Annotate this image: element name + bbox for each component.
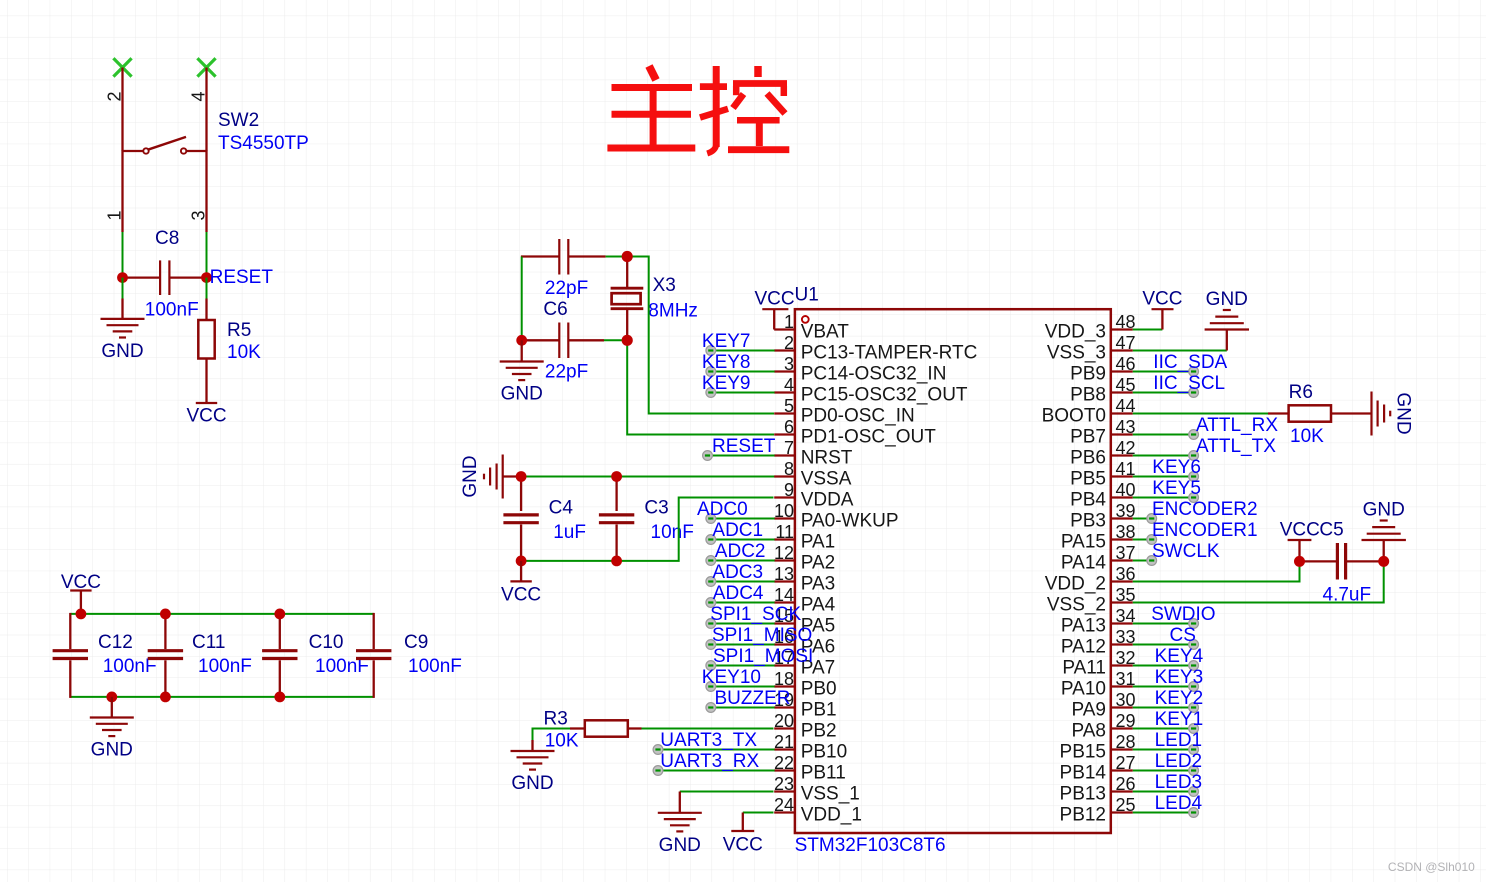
capacitor C10 100nF — [262, 614, 297, 697]
svg-text:10K: 10K — [227, 342, 261, 363]
svg-text:GND: GND — [659, 835, 701, 856]
capacitor C8 100nF — [126, 260, 203, 295]
svg-text:KEY9: KEY9 — [702, 373, 751, 394]
U1 pin 37 PA14 stub and number — [1061, 543, 1136, 574]
svg-text:PC13-TAMPER-RTC: PC13-TAMPER-RTC — [801, 343, 978, 364]
svg-text:BOOT0: BOOT0 — [1042, 406, 1106, 427]
resistor R3 10K — [570, 720, 628, 736]
junction C3 top — [611, 471, 622, 482]
svg-text:1: 1 — [784, 312, 794, 332]
svg-text:35: 35 — [1116, 585, 1136, 605]
wire/net LED1 at U1 pin 28 — [1133, 730, 1202, 754]
junction C10 bottom — [274, 692, 285, 703]
svg-text:28: 28 — [1116, 732, 1136, 752]
U1 pin 25 PB12 stub and number — [1060, 795, 1136, 826]
U1 pin 21 PB10 stub and number — [774, 732, 847, 763]
U1 pin 41 PB5 stub and number — [1070, 459, 1135, 490]
junction at C8 left / GND — [117, 272, 128, 283]
svg-text:PC14-OSC32_IN: PC14-OSC32_IN — [801, 364, 947, 385]
U1 pin 1 VBAT stub and number — [774, 312, 849, 343]
capacitor C5 4.7uF — [1300, 543, 1384, 580]
wire/net RESET at U1 pin 7 — [703, 436, 776, 460]
svg-text:GND: GND — [501, 384, 543, 405]
wire/net ATTL_TX at U1 pin 42 — [1133, 436, 1276, 460]
wire RESET node down to R5 (green) — [206, 278, 208, 299]
U1 pin 5 PD0-OSC_IN stub and number — [774, 396, 915, 427]
wire bottom rail (green) — [70, 696, 373, 698]
wire U1 pin35 VSS_2 to C5 (green) — [1133, 561, 1384, 602]
svg-text:20: 20 — [774, 711, 794, 731]
svg-text:PB2: PB2 — [801, 721, 837, 742]
svg-text:PB15: PB15 — [1060, 742, 1106, 763]
op-amp/IC body U1 STM32F103C8T6 — [795, 309, 1111, 833]
wire/net SPI1_MISO at U1 pin 16 — [706, 625, 812, 649]
svg-text:PB1: PB1 — [801, 700, 837, 721]
wire U1 pin44 BOOT0 to R6 (green) — [1133, 413, 1268, 415]
svg-text:18: 18 — [774, 669, 794, 689]
wire/net UART3_TX at U1 pin 21 — [653, 730, 775, 754]
svg-text:C3: C3 — [644, 497, 668, 518]
wire/net SWCLK at U1 pin 37 — [1133, 541, 1220, 565]
svg-text:22pF: 22pF — [545, 361, 588, 382]
power VCC at U1 pin48 — [1142, 289, 1182, 330]
svg-text:KEY5: KEY5 — [1152, 478, 1201, 499]
svg-text:IIC_SCL: IIC_SCL — [1153, 373, 1225, 394]
svg-text:R6: R6 — [1289, 382, 1313, 403]
U1 pin 1 origin circle — [802, 316, 809, 323]
svg-text:34: 34 — [1116, 606, 1136, 626]
svg-text:39: 39 — [1116, 501, 1136, 521]
svg-text:PA13: PA13 — [1061, 616, 1106, 637]
svg-text:UART3_TX: UART3_TX — [660, 730, 757, 751]
U1 pin 9 VDDA stub and number — [774, 480, 854, 511]
svg-text:C4: C4 — [549, 497, 574, 518]
resistor R6 10K — [1289, 405, 1372, 421]
U1 pin 28 PB15 stub and number — [1060, 732, 1136, 763]
svg-text:C8: C8 — [155, 228, 179, 249]
svg-text:10K: 10K — [1290, 426, 1324, 447]
svg-text:9: 9 — [784, 480, 794, 500]
wire top rail (green) — [70, 613, 373, 615]
svg-text:25: 25 — [1116, 795, 1136, 815]
svg-text:VDDA: VDDA — [801, 490, 854, 511]
svg-text:45: 45 — [1116, 375, 1136, 395]
svg-text:SW2: SW2 — [218, 110, 259, 131]
U1 pin 43 PB7 stub and number — [1070, 417, 1135, 448]
svg-text:10: 10 — [774, 501, 794, 521]
svg-text:26: 26 — [1116, 774, 1136, 794]
wire VSSA rail pin8 (green) — [521, 476, 775, 478]
no-ERC marker X on SW2 pin 4 — [197, 58, 215, 76]
svg-text:KEY4: KEY4 — [1155, 646, 1204, 667]
svg-text:RESET: RESET — [210, 267, 274, 288]
wire bottom of C4/C3 to U1 pin9 (green) — [521, 498, 773, 561]
wire/net ATTL_RX at U1 pin 43 — [1133, 415, 1279, 439]
svg-text:PA1: PA1 — [801, 532, 836, 553]
wire/net KEY1 at U1 pin 29 — [1133, 709, 1203, 733]
junction C11 bottom — [160, 692, 171, 703]
no-ERC marker X on SW2 pin 2 — [113, 58, 131, 76]
svg-text:RESET: RESET — [712, 436, 776, 457]
svg-text:23: 23 — [774, 774, 794, 794]
junction at C8 right / RESET — [201, 272, 212, 283]
svg-text:PB0: PB0 — [801, 679, 837, 700]
svg-text:3: 3 — [784, 354, 794, 374]
svg-text:43: 43 — [1116, 417, 1136, 437]
svg-text:PB5: PB5 — [1070, 469, 1106, 490]
svg-text:SPI1_MISO: SPI1_MISO — [712, 625, 812, 646]
svg-text:PA2: PA2 — [801, 553, 836, 574]
svg-text:ADC3: ADC3 — [712, 562, 763, 583]
svg-text:7: 7 — [784, 438, 794, 458]
ground GND below R3 — [511, 740, 555, 794]
U1 pin 27 PB14 stub and number — [1060, 753, 1136, 784]
ground GND at U1 pin23 — [658, 792, 702, 856]
svg-text:4: 4 — [189, 91, 209, 101]
ground GND right of R6 — [1370, 392, 1372, 436]
svg-text:KEY3: KEY3 — [1155, 667, 1204, 688]
wire/net LED2 at U1 pin 27 — [1133, 751, 1202, 775]
svg-text:ADC2: ADC2 — [715, 541, 766, 562]
wire/net ENCODER1 at U1 pin 38 — [1133, 520, 1258, 544]
svg-text:VCC: VCC — [186, 406, 226, 427]
wire/net KEY10 at U1 pin 18 — [702, 667, 775, 691]
U1 pin 15 PA5 stub and number — [774, 606, 835, 637]
svg-text:C9: C9 — [404, 632, 428, 653]
wire/net LED4 at U1 pin 25 — [1133, 793, 1203, 817]
wire SW2 pin3 to node RESET (green) — [206, 232, 208, 278]
svg-text:PB12: PB12 — [1060, 805, 1106, 826]
svg-text:VSS_3: VSS_3 — [1047, 343, 1106, 364]
wire U1 pin47 VSS_3 to GND (green) — [1133, 350, 1227, 352]
wire/net ADC3 at U1 pin 13 — [706, 562, 775, 586]
svg-text:8MHz: 8MHz — [648, 300, 698, 321]
svg-text:LED3: LED3 — [1155, 772, 1203, 793]
wire/net ADC1 at U1 pin 11 — [706, 520, 775, 544]
svg-text:VSSA: VSSA — [801, 469, 852, 490]
U1 pin 32 PA11 stub and number — [1062, 648, 1135, 679]
svg-text:GND: GND — [511, 773, 553, 794]
ground GND left of VSSA rail — [502, 455, 504, 499]
svg-text:GND: GND — [1363, 500, 1405, 521]
wire/net KEY7 at U1 pin 2 — [702, 331, 775, 355]
svg-text:3: 3 — [189, 210, 209, 220]
wire crystal bottom to U1 pin6 (green) — [627, 340, 774, 434]
svg-text:32: 32 — [1116, 648, 1136, 668]
junction C5 right — [1378, 556, 1389, 567]
wire/net UART3_RX at U1 pin 22 — [653, 751, 775, 775]
svg-text:ENCODER2: ENCODER2 — [1152, 499, 1258, 520]
svg-text:KEY6: KEY6 — [1152, 457, 1201, 478]
U1 pin 24 VDD_1 stub and number — [774, 795, 862, 826]
ground GND at C5 right (inverted) — [1362, 500, 1406, 562]
svg-text:22pF: 22pF — [545, 278, 588, 299]
wire/net KEY4 at U1 pin 32 — [1133, 646, 1204, 670]
junction crystal top — [622, 251, 633, 262]
U1 pin 36 VDD_2 stub and number — [1045, 564, 1136, 595]
svg-text:VBAT: VBAT — [801, 322, 850, 343]
wire U1 pin48 VDD_3 to VCC (green) — [1133, 329, 1163, 331]
U1 pin 4 PC15-OSC32_OUT stub and number — [774, 375, 968, 406]
svg-text:36: 36 — [1116, 564, 1136, 584]
power VCC below R5 — [186, 403, 226, 427]
svg-text:12: 12 — [774, 543, 794, 563]
svg-text:100nF: 100nF — [145, 300, 199, 321]
power VCC for decoupling bank — [61, 572, 101, 614]
svg-text:ATTL_TX: ATTL_TX — [1196, 436, 1276, 457]
capacitor C4 1uF — [503, 477, 538, 561]
svg-text:VSS_1: VSS_1 — [801, 784, 860, 805]
power VCC at C5 left — [1280, 520, 1320, 562]
svg-text:U1: U1 — [795, 285, 819, 306]
U1 pin 23 VSS_1 stub and number — [774, 774, 860, 805]
junction C10 top — [274, 609, 285, 620]
capacitor 22pF (bottom of C6 pair) — [524, 323, 604, 359]
svg-text:37: 37 — [1116, 543, 1136, 563]
U1 pin 35 VSS_2 stub and number — [1047, 585, 1136, 616]
svg-text:R3: R3 — [544, 709, 568, 730]
svg-text:PA12: PA12 — [1061, 637, 1106, 658]
svg-text:100nF: 100nF — [198, 656, 252, 677]
junction C11 top — [160, 609, 171, 620]
wire/net CS at U1 pin 33 — [1133, 625, 1199, 649]
wire/net LED3 at U1 pin 26 — [1133, 772, 1202, 796]
svg-text:VSS_2: VSS_2 — [1047, 595, 1106, 616]
svg-text:PB7: PB7 — [1070, 427, 1106, 448]
svg-text:PB14: PB14 — [1060, 763, 1107, 784]
wire/net ADC0 at U1 pin 10 — [697, 499, 775, 523]
wire U1 pin23 VSS_1 to GND (green) — [680, 791, 774, 793]
junction GND/bottom rail — [106, 692, 117, 703]
svg-text:LED4: LED4 — [1155, 793, 1203, 814]
svg-text:46: 46 — [1116, 354, 1136, 374]
svg-text:KEY2: KEY2 — [1155, 688, 1204, 709]
svg-text:KEY7: KEY7 — [702, 331, 751, 352]
svg-text:PB9: PB9 — [1070, 364, 1106, 385]
title text 主控 (red) — [607, 66, 789, 154]
U1 pin 42 PB6 stub and number — [1070, 438, 1135, 469]
svg-text:VDD_2: VDD_2 — [1045, 574, 1106, 595]
wire left vertical of crystal loop (green) — [521, 257, 523, 341]
svg-text:PA0-WKUP: PA0-WKUP — [801, 511, 899, 532]
svg-text:VDD_3: VDD_3 — [1045, 322, 1106, 343]
U1 pin 26 PB13 stub and number — [1060, 774, 1136, 805]
svg-text:14: 14 — [774, 585, 794, 605]
svg-text:SPI1_MOSI: SPI1_MOSI — [713, 646, 813, 667]
svg-text:TS4550TP: TS4550TP — [218, 133, 309, 154]
svg-text:1uF: 1uF — [553, 522, 586, 543]
svg-text:13: 13 — [774, 564, 794, 584]
svg-text:PA14: PA14 — [1061, 553, 1107, 574]
svg-text:GND: GND — [101, 341, 143, 362]
capacitor C12 100nF — [53, 613, 88, 698]
U1 pin 34 PA13 stub and number — [1061, 606, 1136, 637]
svg-text:10K: 10K — [545, 730, 579, 751]
U1 pin 44 BOOT0 stub and number — [1042, 396, 1136, 427]
wire/net ADC4 at U1 pin 14 — [706, 583, 775, 607]
ground GND below C8 left — [101, 278, 145, 362]
power VCC at U1 pin1 — [755, 289, 795, 330]
svg-text:C11: C11 — [192, 632, 225, 653]
wire/net KEY3 at U1 pin 31 — [1133, 667, 1203, 691]
svg-text:VCC: VCC — [755, 289, 795, 310]
svg-text:C6: C6 — [543, 299, 567, 320]
U1 pin 8 VSSA stub and number — [774, 459, 852, 490]
U1 pin 39 PB3 stub and number — [1070, 501, 1135, 532]
U1 pin 47 VSS_3 stub and number — [1047, 333, 1136, 364]
wire U1 pin24 VDD_1 to VCC (green) — [743, 812, 774, 814]
svg-text:47: 47 — [1116, 333, 1136, 353]
svg-text:4.7uF: 4.7uF — [1323, 585, 1372, 606]
U1 pin 29 PA8 stub and number — [1071, 711, 1135, 742]
svg-text:PA15: PA15 — [1061, 532, 1106, 553]
svg-text:41: 41 — [1116, 459, 1136, 479]
svg-text:IIC_SDA: IIC_SDA — [1153, 352, 1227, 373]
U1 pin 31 PA10 stub and number — [1061, 669, 1136, 700]
svg-text:NRST: NRST — [801, 448, 853, 469]
svg-text:VDD_1: VDD_1 — [801, 805, 862, 826]
U1 pin 22 PB11 stub and number — [774, 753, 846, 784]
junction crystal bottom — [622, 335, 633, 346]
ground GND below crystal caps — [500, 340, 544, 404]
svg-text:PB6: PB6 — [1070, 448, 1106, 469]
svg-text:ADC1: ADC1 — [712, 520, 763, 541]
U1 pin 33 PA12 stub and number — [1061, 627, 1136, 658]
resistor R5 10K — [198, 299, 214, 404]
svg-text:PD0-OSC_IN: PD0-OSC_IN — [801, 406, 915, 427]
junction C3 bottom — [611, 556, 622, 567]
svg-text:STM32F103C8T6: STM32F103C8T6 — [795, 835, 946, 856]
svg-text:PB11: PB11 — [801, 763, 846, 784]
svg-text:6: 6 — [784, 417, 794, 437]
svg-text:LED1: LED1 — [1155, 730, 1203, 751]
svg-text:31: 31 — [1116, 669, 1136, 689]
ground GND at U1 pin47 (inverted) — [1205, 289, 1249, 350]
junction caps left bottom — [516, 335, 527, 346]
svg-text:ENCODER1: ENCODER1 — [1152, 520, 1258, 541]
svg-text:CS: CS — [1170, 625, 1196, 646]
junction C5 left — [1294, 556, 1305, 567]
U1 pin 20 PB2 stub and number — [774, 711, 837, 742]
wire U1 pin36 VDD_2 to C5 (green) — [1133, 561, 1300, 581]
svg-text:GND: GND — [1206, 289, 1248, 310]
svg-text:CSDN @Slh010: CSDN @Slh010 — [1388, 860, 1475, 874]
svg-text:PA8: PA8 — [1071, 721, 1106, 742]
U1 pin 10 PA0-WKUP stub and number — [774, 501, 899, 532]
wire/net KEY6 at U1 pin 41 — [1133, 457, 1201, 481]
switch SW2 TS4550TP — [123, 68, 207, 233]
capacitor C3 10nF — [599, 477, 634, 561]
svg-text:44: 44 — [1116, 396, 1136, 416]
U1 pin 7 NRST stub and number — [774, 438, 853, 469]
wire R3 left to GND (green) — [533, 729, 571, 741]
svg-text:PA10: PA10 — [1061, 679, 1106, 700]
svg-text:PA11: PA11 — [1062, 658, 1106, 679]
svg-text:LED2: LED2 — [1155, 751, 1203, 772]
svg-text:VCC: VCC — [1142, 289, 1182, 310]
svg-text:30: 30 — [1116, 690, 1136, 710]
svg-text:ADC0: ADC0 — [697, 499, 748, 520]
wire/net BUZZER at U1 pin 19 — [706, 688, 791, 712]
svg-text:ATTL_RX: ATTL_RX — [1196, 415, 1278, 436]
svg-text:5: 5 — [784, 396, 794, 416]
U1 pin 45 PB8 stub and number — [1070, 375, 1135, 406]
svg-text:PA4: PA4 — [801, 595, 836, 616]
crystal X3 8MHz — [611, 257, 644, 341]
svg-text:C5: C5 — [1319, 520, 1343, 541]
svg-text:X3: X3 — [653, 275, 676, 296]
svg-text:PA9: PA9 — [1071, 700, 1106, 721]
svg-text:33: 33 — [1116, 627, 1136, 647]
svg-text:48: 48 — [1116, 312, 1136, 332]
junction VCC/top rail — [76, 609, 87, 620]
wire/net SPI1_SCK at U1 pin 15 — [706, 604, 802, 628]
svg-text:GND: GND — [1393, 392, 1414, 434]
svg-text:PD1-OSC_OUT: PD1-OSC_OUT — [801, 427, 937, 448]
U1 pin 3 PC14-OSC32_IN stub and number — [774, 354, 946, 385]
U1 pin 2 PC13-TAMPER-RTC stub and number — [774, 333, 977, 364]
U1 pin 18 PB0 stub and number — [774, 669, 837, 700]
svg-text:GND: GND — [91, 740, 133, 761]
power VCC at U1 pin24 (inverted) — [723, 813, 763, 856]
svg-text:10nF: 10nF — [651, 522, 694, 543]
svg-text:22: 22 — [774, 753, 794, 773]
junction C4 top — [516, 471, 527, 482]
svg-text:8: 8 — [784, 459, 794, 479]
wire crystal top to U1 pin5 (green) — [627, 257, 774, 414]
U1 pin 14 PA4 stub and number — [774, 585, 836, 616]
svg-text:40: 40 — [1116, 480, 1136, 500]
wire/net SPI1_MOSI at U1 pin 17 — [706, 646, 813, 670]
svg-text:ADC4: ADC4 — [713, 583, 764, 604]
svg-text:PC15-OSC32_OUT: PC15-OSC32_OUT — [801, 385, 968, 406]
svg-text:4: 4 — [784, 375, 794, 395]
wire/net SWDIO at U1 pin 34 — [1133, 604, 1216, 628]
svg-text:BUZZER: BUZZER — [715, 688, 791, 709]
svg-text:27: 27 — [1116, 753, 1136, 773]
svg-text:VCC: VCC — [1280, 520, 1320, 541]
svg-text:C10: C10 — [309, 632, 344, 653]
wire/net KEY5 at U1 pin 40 — [1133, 478, 1201, 502]
capacitor C9 100nF — [356, 613, 391, 698]
U1 pin 46 PB9 stub and number — [1070, 354, 1135, 385]
U1 pin 16 PA6 stub and number — [774, 627, 835, 658]
svg-text:29: 29 — [1116, 711, 1136, 731]
svg-text:SPI1_SCK: SPI1_SCK — [710, 604, 801, 625]
junction C4 bottom — [516, 556, 527, 567]
svg-text:C12: C12 — [98, 632, 133, 653]
U1 pin 40 PB4 stub and number — [1070, 480, 1135, 511]
svg-text:24: 24 — [774, 795, 794, 815]
svg-text:SWDIO: SWDIO — [1151, 604, 1215, 625]
svg-text:42: 42 — [1116, 438, 1136, 458]
wire/net IIC_SCL at U1 pin 45 — [1133, 373, 1225, 397]
wire U1 pin20 to R3 (green) — [642, 728, 774, 730]
U1 pin 19 PB1 stub and number — [774, 690, 837, 721]
capacitor C6 22pF (top) — [521, 239, 606, 275]
svg-text:KEY10: KEY10 — [702, 667, 761, 688]
svg-text:100nF: 100nF — [408, 656, 462, 677]
svg-text:21: 21 — [774, 732, 794, 752]
svg-text:PB4: PB4 — [1070, 490, 1106, 511]
svg-text:11: 11 — [775, 522, 794, 542]
svg-text:R5: R5 — [227, 320, 251, 341]
U1 pin 30 PA9 stub and number — [1071, 690, 1135, 721]
wire SW2 pin1 to node RESET (green) — [122, 232, 124, 278]
svg-text:VCC: VCC — [723, 835, 763, 856]
wire/net ADC2 at U1 pin 12 — [706, 541, 775, 565]
ground GND below bottom rail — [90, 697, 134, 761]
